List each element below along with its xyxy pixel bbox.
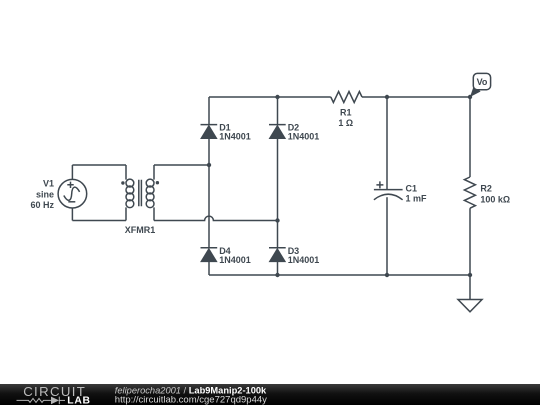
ground	[458, 300, 482, 312]
node Vo flag	[470, 73, 491, 97]
voltage source V1	[58, 179, 87, 208]
wire bridge branch 2 middle (D2 to D3)	[277, 138, 279, 248]
diode D4	[201, 248, 218, 262]
wire V1 top stub	[71, 165, 73, 179]
wire V1 bottom stub	[71, 208, 73, 221]
svg-text:sine: sine	[36, 189, 54, 199]
capacitor C1	[374, 97, 403, 275]
svg-text:R2: R2	[480, 184, 492, 194]
junction secondary bottom at branch 2	[275, 218, 279, 222]
logo resistor-diode line	[17, 397, 66, 405]
svg-text:Vo: Vo	[477, 77, 488, 87]
svg-text:V1: V1	[43, 179, 54, 189]
wire bridge branch 1 upper (top rail to D1)	[208, 97, 210, 125]
wire bottom rail	[209, 274, 470, 276]
svg-text:1 Ω: 1 Ω	[338, 118, 353, 128]
svg-text:1 mF: 1 mF	[406, 194, 428, 204]
junction top rail at C1	[385, 95, 389, 99]
svg-text:1N4001: 1N4001	[219, 255, 251, 265]
diode D2	[269, 125, 286, 139]
diode D1	[201, 125, 218, 139]
wire bridge branch 2 lower (D3 to bottom rail)	[277, 261, 279, 275]
svg-text:1N4001: 1N4001	[288, 132, 320, 142]
junction bottom rail at R2/ground	[468, 273, 472, 277]
wire top rail left segment (bridge top to R1)	[209, 96, 331, 98]
junction bottom rail at C1	[385, 273, 389, 277]
svg-text:XFMR1: XFMR1	[125, 225, 156, 235]
wire bridge branch 1 lower (D4 to bottom rail)	[208, 261, 210, 275]
wire secondary top (to bridge branch 1)	[154, 164, 209, 166]
wire bridge branch 2 upper (top rail to D2)	[277, 97, 279, 125]
wire secondary bottom with hop over branch 1	[154, 216, 278, 220]
transformer XFMR1	[121, 165, 159, 221]
footer bar	[0, 384, 540, 405]
wire top rail right segment (R1 to output node)	[362, 96, 470, 98]
svg-text:1N4001: 1N4001	[288, 255, 320, 265]
wire ground stub	[469, 275, 471, 300]
resistor R2	[464, 97, 475, 275]
svg-text:C1: C1	[406, 184, 418, 194]
svg-text:http://circuitlab.com/cge727qd: http://circuitlab.com/cge727qd9p44y	[115, 394, 267, 405]
junction bottom rail at branch 2	[275, 273, 279, 277]
junction secondary top at branch 1	[207, 163, 211, 167]
svg-text:60 Hz: 60 Hz	[30, 200, 54, 210]
diode D3	[269, 248, 286, 262]
svg-text:1N4001: 1N4001	[219, 132, 251, 142]
resistor R1	[331, 92, 362, 103]
junction top rail at branch 2	[275, 95, 279, 99]
svg-text:100 kΩ: 100 kΩ	[480, 194, 510, 204]
wire bridge branch 1 middle (D1 to D4)	[208, 138, 210, 248]
svg-text:R1: R1	[340, 107, 352, 117]
wire primary bottom	[72, 220, 126, 222]
junction output node Vo	[468, 95, 472, 99]
svg-text:LAB: LAB	[67, 396, 90, 405]
wire primary top	[72, 164, 126, 166]
